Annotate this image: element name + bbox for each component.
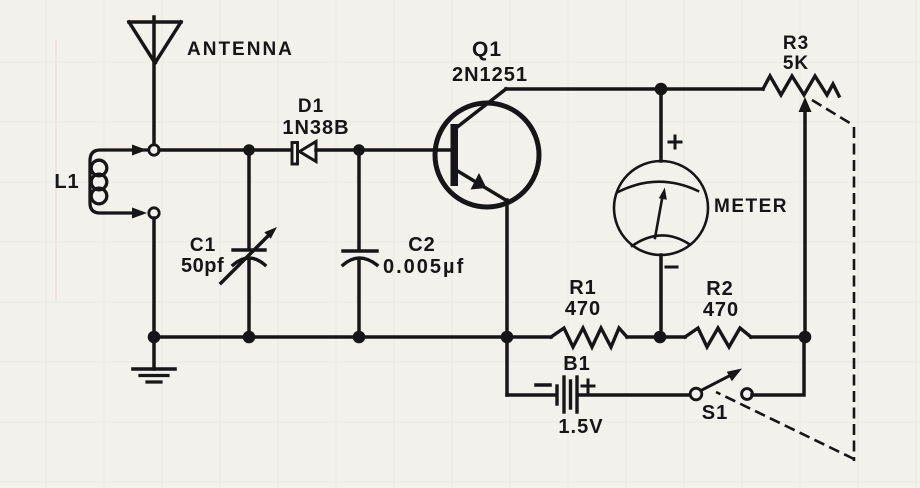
node: C1 bottom junction	[243, 331, 256, 344]
svg-text:1N38B: 1N38B	[282, 117, 349, 139]
svg-text:470: 470	[703, 299, 739, 321]
node: junction at C2 branch	[353, 144, 365, 156]
node: emitter/battery junction	[501, 331, 514, 344]
svg-text:L1: L1	[54, 171, 79, 193]
svg-text:S1: S1	[702, 402, 728, 424]
dashed mechanical link (R3 wiper to S1)	[716, 100, 854, 461]
resistor R1	[551, 328, 627, 347]
svg-text:1.5V: 1.5V	[558, 416, 603, 438]
wire: R1 to R2	[627, 335, 685, 339]
antenna	[129, 17, 181, 144]
node: ground junction	[148, 331, 161, 344]
wire: collector rail (top)	[506, 87, 763, 91]
battery plus sign	[582, 380, 594, 392]
svg-text:2N1251: 2N1251	[452, 64, 528, 86]
faint scan stripes (decorative)	[55, 40, 57, 300]
wire: bottom rail	[154, 335, 551, 339]
node: C2 bottom junction	[353, 331, 366, 344]
wire: switch to right riser	[752, 342, 804, 395]
svg-text:470: 470	[565, 298, 601, 320]
svg-text:0.005µf: 0.005µf	[383, 256, 465, 278]
svg-text:B1: B1	[563, 353, 591, 375]
meter M1	[614, 89, 708, 337]
svg-text:C2: C2	[408, 234, 436, 256]
resistor R3 (rheostat)	[763, 76, 839, 338]
svg-text:Q1: Q1	[472, 38, 502, 61]
svg-text:5K: 5K	[783, 53, 809, 74]
svg-text:50pf: 50pf	[181, 255, 224, 277]
wire: diode to base	[316, 148, 450, 152]
transistor Q1	[435, 89, 539, 207]
terminal top (node antenna/L1)	[149, 145, 159, 155]
battery minus sign	[536, 383, 550, 387]
diode D1	[292, 142, 316, 165]
switch S1	[690, 369, 752, 400]
wire: L1 bottom terminal to ground rail	[152, 218, 156, 337]
svg-text:R2: R2	[706, 278, 734, 300]
svg-text:R1: R1	[569, 277, 597, 299]
svg-text:METER: METER	[714, 196, 788, 217]
node: R1/R2/meter junction	[654, 331, 667, 344]
node: junction at C1 branch	[243, 144, 255, 156]
svg-text:R3: R3	[783, 33, 809, 54]
node: rail/meter junction	[655, 83, 668, 96]
capacitor C2	[343, 150, 377, 337]
capacitor C1 (variable)	[221, 150, 277, 337]
meter minus sign	[666, 266, 677, 269]
resistor R2	[685, 328, 751, 347]
svg-text:C1: C1	[190, 235, 216, 256]
node: R2/R3 wiper junction	[799, 331, 812, 344]
svg-text:ANTENNA: ANTENNA	[187, 39, 294, 60]
wire: emitter drop	[505, 200, 509, 337]
inductor L1	[90, 145, 147, 219]
svg-text:D1: D1	[298, 96, 324, 117]
ground	[133, 337, 175, 382]
meter plus sign	[669, 136, 681, 148]
wire: R2 to right junction	[751, 335, 805, 339]
battery B1	[507, 337, 692, 412]
terminal bottom (node L1/ground)	[149, 208, 159, 218]
wire: top circle to diode	[159, 148, 293, 152]
